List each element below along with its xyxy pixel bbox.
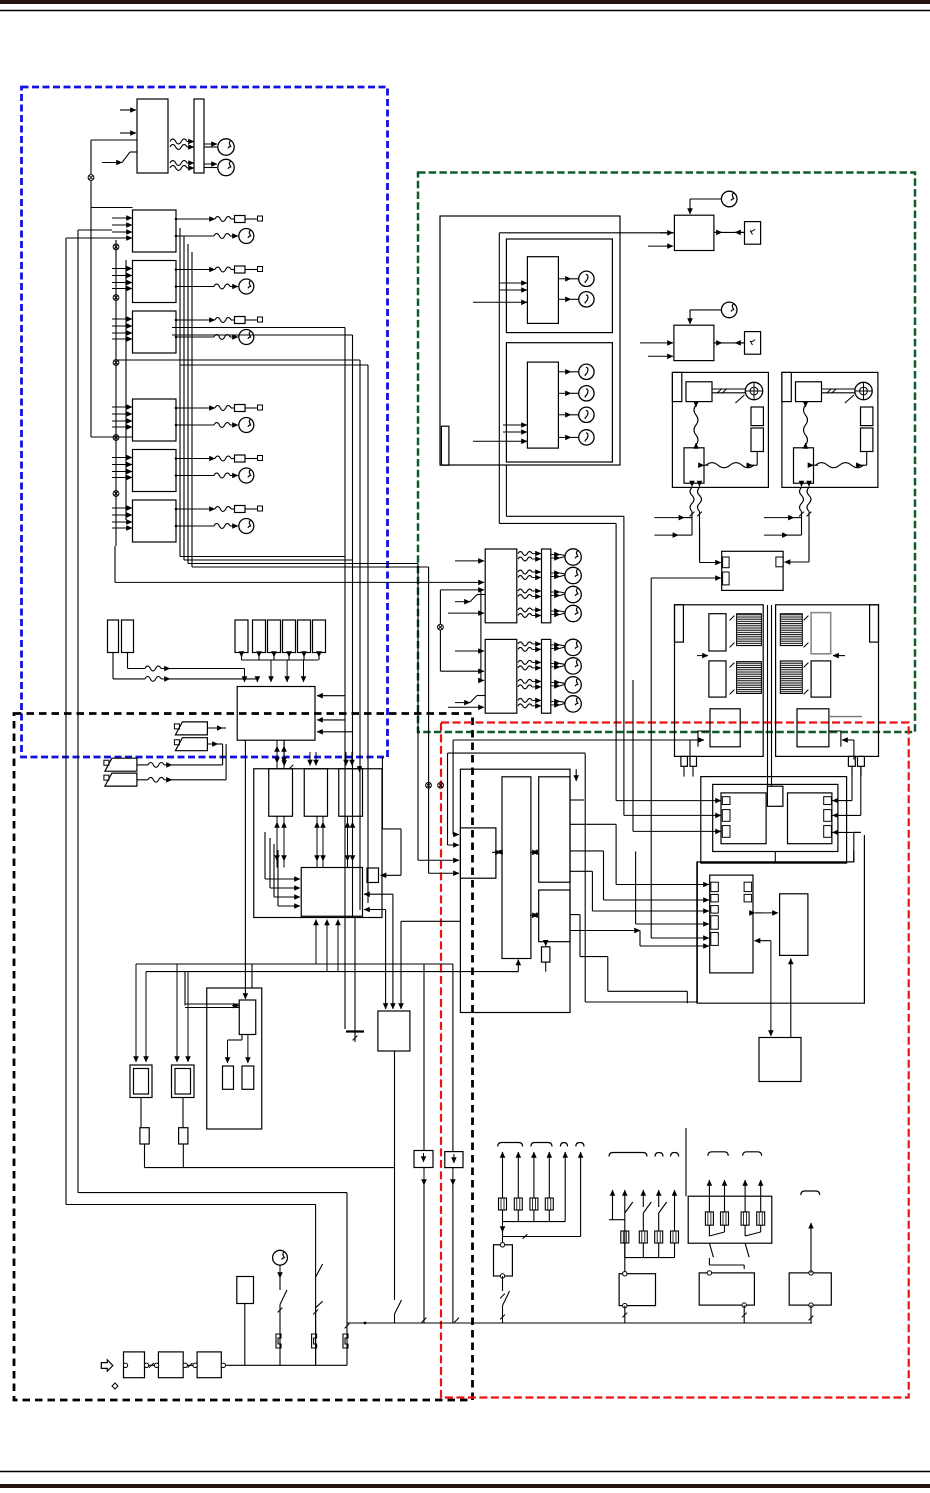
fuse F12 [253, 620, 266, 653]
connector X7 [438, 624, 444, 630]
terminal strip TB1 [194, 99, 204, 173]
heater left feeds [616, 800, 721, 802]
display inner box 1 [506, 239, 612, 333]
drop wires to relay box [770, 941, 772, 1036]
blower B connector notch [829, 731, 841, 747]
gearbox G-box1 [124, 1352, 145, 1378]
gauge GK2 [239, 279, 254, 294]
ECU right input 2 [364, 909, 386, 911]
K1 gauge output wire [176, 235, 214, 237]
connector X2 [113, 244, 119, 250]
aux box AB1 wires [423, 964, 425, 1151]
module output squiggles [690, 487, 694, 511]
terminal T1 [258, 216, 263, 221]
U1 output squiggle row 1 [170, 139, 187, 144]
K3 gauge output wire [176, 336, 214, 338]
heater left unit [721, 793, 766, 844]
M3 arrow in [660, 232, 673, 234]
display cluster outer box [440, 216, 620, 465]
M4 gauge elbow [689, 310, 691, 324]
U1 output squiggle row 2 [170, 161, 187, 166]
blower resistor pack A1 [709, 614, 726, 651]
driver stage rect D2 [304, 769, 327, 817]
driver stage rect D3 [339, 769, 363, 817]
gauge GK1 [239, 229, 254, 244]
gauge GL at row 1 [565, 549, 581, 565]
heater left tabs [722, 797, 730, 805]
lamp terminal strip [542, 639, 551, 713]
gauge GL at row 4 [565, 605, 581, 621]
WR1 to heater center wires [767, 605, 769, 786]
upper cross wire W4 [180, 364, 368, 366]
lamp module link wire [439, 590, 441, 624]
lamp module A input 1 [455, 560, 484, 562]
RB2 third feed wire [400, 921, 402, 1007]
M3 resistor box [745, 222, 761, 245]
right bus wires down [851, 766, 853, 800]
ECU left input 3 [273, 844, 275, 897]
wiper motor link [822, 388, 855, 390]
U1 output arrows row 1 [187, 141, 194, 143]
lighting feed vertical [615, 523, 617, 800]
fuse F2 [235, 266, 246, 273]
body controller left box [460, 828, 496, 878]
K1 fuse output wire [176, 218, 215, 220]
JB1 right input from drop wire [317, 695, 345, 697]
K1 edge pins [175, 218, 178, 221]
bus junction dots [422, 1318, 427, 1323]
K2 gauge output wire [176, 286, 214, 288]
wire A to blower connector [453, 739, 690, 741]
relay block K3 [133, 311, 177, 353]
gearbox link 2 [183, 1364, 197, 1366]
meter M2 outer [172, 1065, 195, 1098]
U1 input arrow 1 [120, 109, 136, 111]
battery box B1 [494, 1245, 513, 1276]
fuse F16 bottom stub [318, 652, 320, 658]
lamp module A switch input [455, 601, 470, 603]
resistor R5 [545, 942, 547, 946]
body controller container [460, 769, 570, 1012]
ECU bottom stubs [315, 920, 317, 965]
FL3 wire with squiggle R1 [137, 764, 148, 766]
controller internal double arrow 2 [530, 851, 532, 853]
blower B arrows [833, 655, 845, 657]
flasher feed elbow [251, 964, 253, 988]
flasher outputs [241, 1035, 243, 1041]
M4 to resistor wire [735, 342, 745, 344]
page bottom bar [0, 1484, 930, 1488]
controller internal double arrow 3 [530, 914, 532, 916]
wiper module at x=781.9 [782, 372, 878, 487]
display feed wire vertical 2 [505, 465, 507, 516]
gearbox link 1 [145, 1364, 159, 1366]
M4 resistor box [745, 332, 761, 355]
M2 feed wires [176, 964, 178, 1062]
lamp L4 wire [558, 392, 571, 394]
black dashed boundary box (chassis area) [14, 714, 473, 1401]
bus B elbow to fuse chain [78, 1192, 347, 1194]
main ground bus wire [347, 1322, 812, 1324]
relay block K6 [133, 500, 177, 542]
main rect bottom feed [517, 960, 519, 972]
aux box AB2 wires [452, 964, 454, 1152]
fuse F16 [313, 620, 326, 653]
D3 to ECU double arrow [347, 816, 349, 861]
left box input upper wires [452, 740, 454, 835]
vertical squiggle link [804, 405, 808, 445]
lamp row squiggles 3 [518, 679, 532, 683]
M3 bottom input [648, 245, 673, 247]
fuse F13 bottom stub [273, 652, 275, 658]
relay flag FL2 [174, 738, 207, 751]
heatsink A2 [737, 662, 762, 694]
M4 gauge G5 [721, 302, 737, 318]
lamp module A input 5 [448, 612, 484, 614]
fuse F14 bottom stub [288, 652, 290, 658]
lamp terminal strip [542, 549, 551, 623]
ECU main box [301, 868, 362, 917]
wire bundle from relay bank [179, 228, 181, 557]
bus wire C [115, 240, 117, 546]
M3 to resistor wire [735, 231, 745, 233]
K5 fuse output wire [176, 458, 215, 460]
lamp L2 wire [558, 298, 571, 300]
FH1 wire with squiggle [112, 653, 114, 679]
blower resistor pack B2 [811, 661, 831, 697]
long verticals right of black box [685, 1128, 687, 1196]
park contact rect 1 [751, 407, 763, 426]
vertical squiggle link [694, 405, 698, 445]
D2 to ECU double arrow [316, 816, 318, 861]
flasher left feed [184, 972, 186, 1006]
blower feet drop wires [683, 766, 685, 776]
fuse box internal wires [708, 1225, 710, 1236]
heater right unit [788, 793, 832, 844]
K2 input stubs [112, 268, 132, 270]
heater center connector [767, 786, 783, 806]
blower module right frame [776, 605, 879, 757]
heater control inner box [713, 784, 838, 851]
park contact rect 2 [751, 428, 763, 452]
control area frame wire [697, 835, 864, 1003]
junction box JB1 [237, 687, 315, 741]
lamp module A input 2 (cross-page wire) [115, 581, 484, 583]
lamp module B switch input [455, 702, 470, 704]
loom bracket small [801, 1191, 820, 1195]
lamp L3 [579, 364, 594, 379]
harness fuses group 1 [502, 1176, 504, 1199]
block A left feeds [500, 282, 527, 284]
K6 gauge output wire [176, 525, 214, 527]
FH2 wire with squiggle [127, 653, 129, 669]
resistor R3 [140, 1098, 142, 1128]
K3 edge pins [175, 319, 178, 322]
wires TB1 to gauge G1 [204, 143, 217, 145]
long vertical wire to T-joint [344, 328, 346, 1030]
long wire to fusebox [696, 862, 698, 1003]
M4 bottom input [648, 355, 673, 357]
switch blade S2a [316, 1264, 323, 1277]
lamp module A branch wire [480, 590, 482, 681]
M3 gauge elbow [689, 199, 691, 214]
module input elbows [654, 517, 684, 519]
fuse F6 [235, 506, 246, 513]
D2 top stubs [309, 752, 311, 766]
loom bracket row 1 [498, 1143, 523, 1147]
indicator unit IL2 [242, 1066, 254, 1089]
blower B connector [797, 709, 829, 747]
lamp row wire 3 [551, 591, 560, 593]
transformer block U1 [137, 99, 168, 173]
ECU right input 1 [364, 893, 393, 895]
lamp row squiggles 3 [518, 589, 532, 593]
lower relay box LR1 [759, 1038, 801, 1082]
lamp L1 wire [558, 278, 571, 280]
blower B connector arrow [853, 740, 855, 760]
controller right tabs [744, 882, 752, 891]
lamp L2 [579, 292, 594, 307]
blower module left frame [675, 605, 764, 757]
K6 edge pins [175, 508, 178, 511]
block B left feeds [503, 424, 527, 426]
merge drop 1 [270, 660, 272, 682]
connector X5 [113, 435, 119, 441]
lamp driver block at y=549 [485, 549, 517, 623]
fuse F15 bottom stub [303, 652, 305, 658]
gauge GK3 [239, 330, 254, 345]
lamp row wire 1 [551, 554, 560, 556]
long vertical wire 2 [352, 335, 354, 918]
ECU left input 4 [277, 850, 279, 906]
fuse F14 [283, 620, 296, 653]
module output squiggles [800, 487, 804, 511]
fuse FC1 [276, 1332, 281, 1348]
container top stub [575, 769, 577, 781]
lamp L6 [579, 430, 594, 445]
D1 to ECU double arrow [276, 816, 278, 861]
starter motor box SM1 [789, 1273, 831, 1305]
rotor switch blade [845, 395, 854, 403]
rotor switch blade [735, 395, 744, 403]
connector X6 [113, 491, 119, 497]
upper cross wire W1 [172, 327, 345, 329]
wire X1 down to relay bank [90, 181, 92, 438]
fuse F11 bottom stub [241, 652, 243, 658]
fuse F4 [235, 405, 246, 412]
K1 input stubs [112, 217, 132, 219]
relay block K1 [133, 210, 177, 252]
wiper control box [794, 448, 814, 483]
long vertical wire 2c [367, 365, 369, 903]
K5 gauge output wire [176, 475, 214, 477]
fuse holder FH2 [122, 620, 134, 653]
lamp L4 [579, 386, 594, 401]
fuse F11 [235, 620, 248, 653]
ECU aux box [367, 868, 379, 883]
gauge GL at row 3 [565, 586, 581, 602]
relay block K4 [133, 399, 177, 441]
upper cross wire W3 [116, 359, 360, 361]
terminal T2 [258, 267, 263, 272]
upper cross wire W2 [172, 334, 353, 336]
green dashed boundary box (lighting area) [418, 173, 915, 733]
lamp row wire 2 [551, 572, 560, 574]
lamp row wire 3 [551, 681, 560, 683]
gauge GL at row 1 [565, 639, 581, 655]
U1 input arrow 2 [120, 132, 136, 134]
fuse F15 [298, 620, 311, 653]
resistor join wire [145, 1167, 395, 1169]
aux box AB2 [445, 1152, 463, 1168]
horizontal feed line pair upper [136, 963, 453, 965]
fuse F3 [235, 317, 246, 324]
blower A connector notch [698, 731, 710, 747]
relay flag FL3 [104, 758, 137, 771]
flasher relay F/R [239, 1000, 256, 1035]
M3 gauge G4 [721, 191, 737, 207]
fuse box fuses [708, 1180, 710, 1212]
K6 fuse output wire [176, 508, 215, 510]
bottom ground diamond [112, 1383, 118, 1389]
switch blade S2b [316, 1301, 323, 1307]
gauge GK6 [239, 519, 254, 534]
lamp L6 wire [558, 436, 571, 438]
fuse FC2 [312, 1332, 317, 1348]
SM1 feed [810, 1223, 812, 1273]
lamp row squiggles 1 [518, 552, 532, 556]
wiper motor box [686, 382, 712, 402]
relay block K5 [133, 450, 177, 492]
page top bar [0, 0, 930, 4]
fuse F5 [235, 455, 246, 462]
M4 left input [640, 342, 673, 344]
wire to module M3 [499, 232, 674, 234]
heater right tabs [824, 797, 832, 805]
resistor R4 [182, 1098, 184, 1128]
meter M2 inner [175, 1069, 191, 1095]
harness join wire 1 [503, 1221, 566, 1223]
meter M1 outer [130, 1065, 152, 1098]
D3 top stubs [345, 752, 347, 766]
controller lower-left feed [570, 930, 640, 932]
FL4 wire with squiggle R2 [137, 779, 148, 781]
lamp module B input 2 [440, 670, 480, 672]
terminal T4 [258, 405, 263, 410]
driver box right [780, 894, 808, 956]
connector X1 [88, 175, 94, 181]
heatsink B1 [780, 614, 802, 646]
gearbox pin left [123, 1363, 127, 1367]
long vertical wire 3 [417, 564, 419, 861]
fusebox top brackets [708, 1152, 728, 1156]
gauge GL at row 3 [565, 677, 581, 693]
gauge GK5 [239, 468, 254, 483]
blower resistor pack A2 [709, 661, 726, 697]
harness drop wire [502, 1222, 504, 1232]
controller-driver double arrow [755, 912, 762, 914]
JB1 right stubs [317, 719, 345, 721]
fuse F12 bottom stub [258, 652, 260, 658]
flasher container box [207, 988, 262, 1129]
gauge GL at row 2 [565, 658, 581, 674]
long vertical wire 2b [359, 360, 361, 910]
head module M4 [674, 325, 714, 360]
display block B [527, 362, 558, 448]
K4 fuse output wire [176, 407, 215, 409]
capacitor T1 wire [354, 918, 356, 1043]
ECU outer frame [254, 769, 382, 918]
harness fuses group 2 [621, 1231, 629, 1243]
connector X8 pair [426, 782, 432, 788]
heater control outer box [701, 777, 847, 864]
display inner box 2 [506, 343, 612, 462]
indicator unit IL1 [223, 1066, 234, 1089]
blower A feet [681, 756, 688, 766]
gauge G1 [218, 139, 234, 155]
K4 edge pins [175, 407, 178, 410]
gauge GL at row 2 [565, 567, 581, 583]
blue dashed boundary box (instrument cluster area) [22, 87, 388, 757]
horizontal squiggle link [816, 463, 864, 468]
red dashed boundary box (power distribution area) [441, 723, 909, 1398]
park contact rect 1 [861, 407, 873, 426]
WR1 lower feed wire [651, 577, 721, 579]
WR1 left wire [699, 527, 701, 563]
chain S3 blade [395, 1300, 402, 1314]
lamp row wire 4 [551, 700, 560, 702]
body controller main rect [502, 777, 531, 959]
relay flag FL4 [104, 773, 137, 786]
blower resistor pack B1 [811, 613, 831, 654]
controller feed wires [570, 799, 584, 801]
gauge GL at row 4 [565, 696, 581, 712]
harness arrows group 1 [502, 1152, 504, 1176]
lamp driver block at y=639.4 [485, 639, 517, 713]
loom bracket row 2 [609, 1153, 647, 1157]
terminal T3 [258, 317, 263, 322]
blower B connector wire gray [829, 716, 862, 718]
wiper rotor [855, 382, 872, 399]
K2 fuse output wire [176, 269, 215, 271]
K3 input stubs [112, 318, 132, 320]
lamp L5 [579, 407, 594, 422]
display block A [527, 257, 558, 324]
wiper control box [684, 448, 704, 483]
wire B to driver bus [448, 752, 586, 754]
JB1 bottom wire to flasher [244, 740, 246, 997]
head module M3 [674, 215, 714, 250]
gearbox G-box2 [158, 1352, 183, 1378]
fuse FC3 [343, 1332, 348, 1348]
WR1 left tab 2 [723, 572, 730, 585]
FL1 wire [208, 727, 223, 729]
page top rule [0, 10, 930, 12]
JB1 to D1 double arrow [276, 746, 278, 769]
lamp row wire 2 [551, 662, 560, 664]
lamp module A input 3 [440, 589, 484, 591]
controller internal double arrow 1 [492, 851, 497, 853]
harness join wire 2 [625, 1257, 675, 1259]
bus A elbow to switch chain [66, 1204, 316, 1206]
flow arrow symbol [101, 1360, 113, 1371]
harness arrows group 2 with switches [612, 1190, 614, 1220]
terminal T6 [258, 506, 263, 511]
display feed wire vertical [498, 233, 500, 524]
lamp row squiggles 2 [518, 570, 532, 574]
K6 input stubs [112, 507, 132, 509]
meter M1 inner [134, 1069, 149, 1095]
